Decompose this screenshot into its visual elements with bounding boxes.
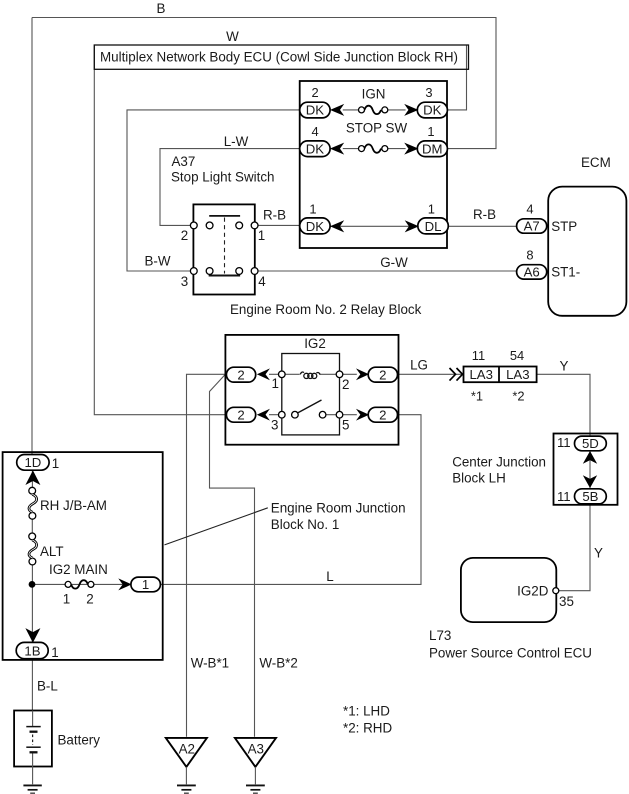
svg-text:1B: 1B <box>24 644 40 659</box>
svg-text:IG2D: IG2D <box>517 584 549 599</box>
svg-text:Y: Y <box>594 546 603 561</box>
svg-text:Engine Room No. 2 Relay Block: Engine Room No. 2 Relay Block <box>230 302 422 317</box>
svg-text:2: 2 <box>342 377 349 392</box>
svg-text:4: 4 <box>312 124 319 139</box>
svg-text:LA3: LA3 <box>506 367 529 382</box>
svg-text:3: 3 <box>425 85 432 100</box>
svg-text:A3: A3 <box>248 742 264 757</box>
svg-text:DK: DK <box>306 219 325 234</box>
svg-text:LA3: LA3 <box>469 367 492 382</box>
svg-text:STOP SW: STOP SW <box>346 121 408 136</box>
svg-text:*1: LHD: *1: LHD <box>343 704 390 719</box>
svg-text:DL: DL <box>425 219 442 234</box>
svg-text:A37: A37 <box>172 154 196 169</box>
svg-text:ECM: ECM <box>581 155 611 170</box>
svg-text:4: 4 <box>526 202 533 217</box>
svg-text:B: B <box>157 1 166 16</box>
svg-text:1: 1 <box>258 228 265 243</box>
svg-text:STP: STP <box>551 219 577 234</box>
svg-text:Y: Y <box>560 359 569 374</box>
svg-text:LG: LG <box>410 358 428 373</box>
svg-text:Power Source Control ECU: Power Source Control ECU <box>429 646 592 661</box>
svg-text:11: 11 <box>557 435 571 450</box>
svg-text:2: 2 <box>237 407 244 422</box>
svg-text:1: 1 <box>51 645 58 660</box>
svg-text:5B: 5B <box>582 489 598 504</box>
svg-text:1D: 1D <box>24 455 41 470</box>
svg-text:8: 8 <box>526 248 533 263</box>
svg-text:*2: RHD: *2: RHD <box>343 721 392 736</box>
svg-text:DK: DK <box>423 103 442 118</box>
svg-text:11: 11 <box>472 348 485 363</box>
svg-text:2: 2 <box>379 367 386 382</box>
svg-text:L73: L73 <box>429 628 451 643</box>
svg-text:A6: A6 <box>524 265 540 280</box>
svg-text:5D: 5D <box>582 436 599 451</box>
svg-text:A2: A2 <box>179 742 195 757</box>
svg-text:R-B: R-B <box>473 207 496 222</box>
svg-text:3: 3 <box>271 418 278 433</box>
svg-text:1: 1 <box>142 577 149 592</box>
svg-text:IGN: IGN <box>362 87 386 102</box>
svg-text:1: 1 <box>309 201 316 216</box>
svg-text:1: 1 <box>427 124 434 139</box>
svg-text:35: 35 <box>559 594 574 609</box>
svg-text:54: 54 <box>510 348 524 363</box>
svg-text:1: 1 <box>63 592 70 607</box>
svg-text:*2: *2 <box>512 389 524 404</box>
svg-text:11: 11 <box>557 489 571 504</box>
svg-text:Multiplex Network Body ECU (Co: Multiplex Network Body ECU (Cowl Side Ju… <box>100 50 458 65</box>
svg-text:A7: A7 <box>524 219 540 234</box>
svg-text:G-W: G-W <box>380 255 408 270</box>
svg-text:Block LH: Block LH <box>452 471 506 486</box>
svg-text:DM: DM <box>422 141 443 156</box>
svg-text:Battery: Battery <box>58 733 101 748</box>
svg-text:1: 1 <box>272 376 279 391</box>
svg-text:4: 4 <box>258 274 266 289</box>
svg-text:W-B*2: W-B*2 <box>259 656 297 671</box>
svg-text:DK: DK <box>306 141 325 156</box>
svg-text:2: 2 <box>86 592 93 607</box>
svg-text:W-B*1: W-B*1 <box>191 656 229 671</box>
svg-text:L: L <box>326 569 333 584</box>
svg-text:B-W: B-W <box>144 254 170 269</box>
svg-text:Block No. 1: Block No. 1 <box>271 517 339 532</box>
svg-text:RH J/B-AM: RH J/B-AM <box>40 498 107 513</box>
svg-text:*1: *1 <box>471 389 483 404</box>
svg-text:5: 5 <box>342 418 349 433</box>
svg-text:2: 2 <box>181 228 188 243</box>
svg-text:1: 1 <box>428 201 435 216</box>
svg-text:B-L: B-L <box>37 679 58 694</box>
svg-text:3: 3 <box>181 274 188 289</box>
svg-text:2: 2 <box>237 367 244 382</box>
svg-text:IG2: IG2 <box>304 336 326 351</box>
svg-text:2: 2 <box>379 407 386 422</box>
svg-text:Engine Room Junction: Engine Room Junction <box>271 501 406 516</box>
svg-text:ST1-: ST1- <box>551 265 580 280</box>
svg-text:ALT: ALT <box>40 544 64 559</box>
svg-text:Stop Light Switch: Stop Light Switch <box>171 170 274 185</box>
svg-text:W: W <box>226 29 239 44</box>
svg-text:R-B: R-B <box>263 208 286 223</box>
svg-text:Center Junction: Center Junction <box>452 455 546 470</box>
svg-text:IG2 MAIN: IG2 MAIN <box>49 562 108 577</box>
svg-text:DK: DK <box>306 103 325 118</box>
svg-text:1: 1 <box>52 456 59 471</box>
svg-text:2: 2 <box>312 85 319 100</box>
svg-text:L-W: L-W <box>224 134 249 149</box>
